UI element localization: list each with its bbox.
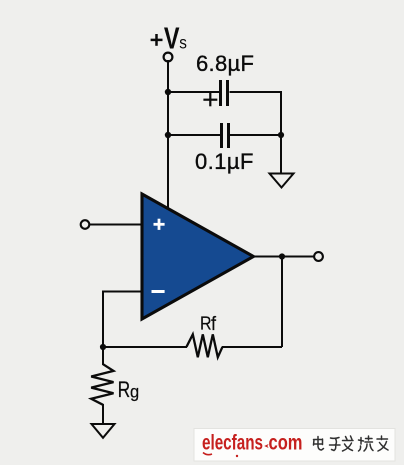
wire input to op-amp + pin bbox=[90, 224, 143, 226]
svg-text:R: R bbox=[118, 378, 131, 403]
svg-text:s: s bbox=[179, 32, 187, 52]
node junction output/feedback bbox=[279, 253, 285, 259]
wire +Vs down to op-amp power pin bbox=[167, 60, 169, 208]
wire op-amp output bbox=[254, 256, 315, 258]
logo separator arrow bbox=[264, 444, 268, 448]
wire Rf left lead bbox=[103, 346, 187, 348]
wire feedback down from output node bbox=[281, 257, 283, 348]
char shao bbox=[359, 436, 374, 451]
op-amp U1 bbox=[142, 194, 254, 319]
wire to capacitor C2 left plate bbox=[168, 134, 220, 136]
chinese characters 电子发烧友 (drawn strokes) bbox=[314, 436, 389, 451]
char dian bbox=[314, 437, 324, 451]
resistor Rg bbox=[91, 364, 113, 405]
op-amp - input symbol bbox=[152, 290, 165, 293]
node +Vs label bbox=[151, 21, 187, 56]
node junction feedback/Rg bbox=[100, 344, 106, 350]
op-amp + input symbol bbox=[154, 219, 165, 230]
svg-text:6.8µF: 6.8µF bbox=[196, 51, 254, 76]
wire op-amp - pin to feedback node bbox=[103, 292, 142, 348]
ground (Rg) bbox=[92, 424, 115, 438]
wire C2 right plate to right rail bbox=[230, 134, 281, 136]
wire Rg top lead bbox=[102, 347, 104, 365]
svg-text:f: f bbox=[211, 313, 217, 335]
Rg label bbox=[118, 378, 140, 403]
logo e underline swoosh bbox=[203, 453, 212, 455]
Rf label bbox=[200, 312, 217, 334]
wire to capacitor C1 left plate bbox=[168, 91, 220, 93]
svg-text:0.1µF: 0.1µF bbox=[195, 149, 254, 174]
svg-text:R: R bbox=[200, 312, 212, 333]
logo f descender dot bbox=[236, 455, 238, 457]
wire Rf right lead bbox=[222, 346, 282, 348]
node junction at 6.8uF branch bbox=[165, 89, 171, 95]
terminal non-inverting input (open circle) bbox=[81, 220, 90, 229]
wire right rail down to ground bbox=[280, 135, 282, 173]
char you bbox=[377, 436, 388, 451]
capacitor C2 0.1uF bbox=[222, 123, 229, 148]
resistor Rf bbox=[187, 334, 223, 357]
capacitor C1 6.8uF (polarized) bbox=[221, 80, 228, 106]
svg-text:elecfans: elecfans bbox=[202, 432, 263, 455]
ground (bypass caps) bbox=[270, 174, 294, 188]
terminal +Vs (open circle) bbox=[164, 53, 173, 62]
char zi bbox=[330, 438, 341, 451]
svg-text:V: V bbox=[164, 21, 180, 56]
node junction at 0.1uF branch bbox=[165, 132, 171, 138]
svg-text:com: com bbox=[269, 432, 303, 455]
char fa bbox=[343, 436, 354, 451]
terminal output (open circle) bbox=[314, 252, 323, 261]
node junction right rail bbox=[278, 132, 284, 138]
elecfans watermark box bbox=[194, 429, 395, 462]
svg-text:g: g bbox=[130, 381, 139, 402]
C1 plus polarity mark bbox=[203, 93, 217, 106]
wire C1 right plate to right rail bbox=[230, 92, 282, 135]
wire Rg bottom lead bbox=[102, 404, 104, 423]
